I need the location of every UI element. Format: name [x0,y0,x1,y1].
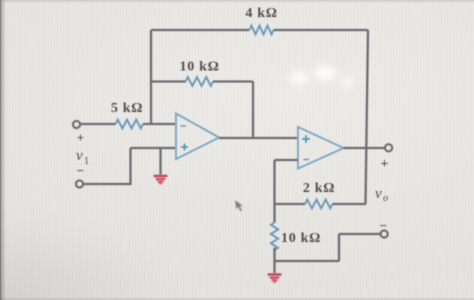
label plus input U2 [302,135,310,143]
wire: vertical from 10k down to op1 output [252,82,254,139]
wire: vo minus horizontal [339,233,381,235]
terminal: vo plus [385,144,392,151]
glare reflections [290,66,355,89]
node A: left vertical joining 4k,10k to inverting input [150,30,152,124]
ground G2 [268,273,282,283]
terminal: vo minus [381,230,388,237]
wire: 10k feedback wire left segment [151,80,186,82]
wire: ground tap op1 [159,148,161,175]
mouse cursor [235,200,243,211]
wire: below 10k to bottom rail and ground [273,248,275,274]
resistor R 10k grounded (vertical zigzag) [271,223,278,251]
resistor R 2k zigzag [305,200,333,209]
wire: top feedback wire left segment (node A to 4k) [151,29,250,31]
label minus input U1 [181,125,187,127]
wire: bottom rail [275,260,340,262]
wire: 2k wire right segment [333,203,367,205]
wire: 2k wire left segment [275,203,306,205]
wire: op2 output [344,147,386,149]
label minus input U2 [304,159,310,161]
ground G1 [154,175,168,185]
resistor R 10k zigzag [186,77,214,86]
resistor R 5k zigzag [116,120,144,129]
wire: op1 noninverting input [131,147,177,149]
wire: 5k input wire left segment [80,123,116,125]
wire: v1 minus horizontal [83,183,132,185]
wire: left vertical from op2 minus down to 10k grounded resistor [273,160,275,223]
wire: vertical from v1 minus up to + input [129,148,131,184]
label plus input U1 [181,144,188,151]
op-amp U2 [298,127,344,169]
wire: vertical up to vo minus wire [338,234,340,261]
wire: op2 inverting input [275,159,299,161]
terminal: v1 minus [76,180,83,187]
wire: right vertical (top wire down to 2k wire, crossing output) [366,30,369,204]
terminal: v1 plus [73,121,80,128]
wire: 5k to op1 inverting input [143,123,176,125]
wire: top feedback wire right segment (4k to right vertical) [274,29,369,31]
wire: op1 output to op2 + input [219,137,298,139]
op-amp U1 [176,114,219,160]
wire: 10k feedback wire right segment [213,80,253,82]
resistor R 4k zigzag [250,26,274,35]
